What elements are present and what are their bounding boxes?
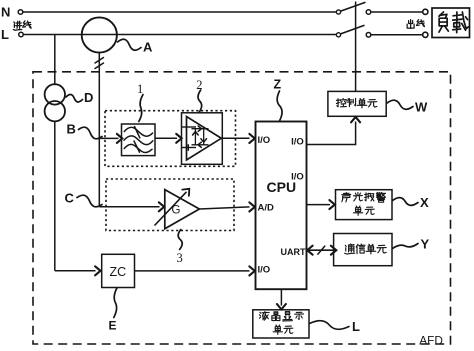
svg-text:AFD: AFD [419,334,443,348]
svg-text:3: 3 [177,251,183,265]
svg-text:L: L [352,319,360,334]
svg-text:N: N [1,5,10,20]
svg-text:I/O: I/O [258,265,271,276]
svg-text:1: 1 [137,82,143,96]
svg-text:D: D [84,90,93,105]
svg-text:B: B [67,122,76,137]
svg-text:I/O: I/O [258,135,271,146]
svg-text:UART: UART [281,247,306,257]
svg-text:Z: Z [274,78,282,92]
svg-text:A/D: A/D [258,203,275,214]
svg-text:A: A [143,40,153,55]
svg-text:X: X [420,195,429,210]
svg-text:E: E [109,319,117,333]
svg-text:2: 2 [196,78,202,92]
svg-text:I/O: I/O [291,172,304,183]
svg-text:I/O: I/O [291,137,304,148]
svg-text:W: W [415,100,428,115]
svg-text:Y: Y [421,237,430,252]
svg-text:L: L [1,27,9,42]
svg-text:ZC: ZC [110,265,127,279]
svg-text:C: C [65,191,75,206]
